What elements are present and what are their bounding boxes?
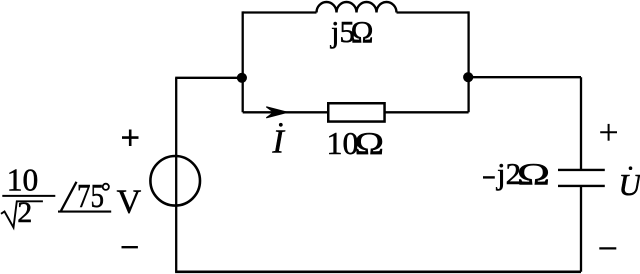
wire: left vertical branch through source	[175, 78, 177, 272]
node B (junction dot right)	[463, 72, 473, 82]
wire: top rail left segment	[243, 11, 317, 13]
voltage source Us (circle symbol)	[150, 156, 200, 206]
capacitor C1 (-j2 ohm) top plate	[558, 169, 605, 171]
wire: right vertical below capacitor	[580, 187, 582, 272]
svg-text:U: U	[619, 167, 640, 202]
resistor value label 10Ω	[327, 125, 385, 161]
source value label 10/√2 ∠75° V	[1, 163, 142, 229]
node A (junction dot left)	[237, 73, 247, 83]
inductor L1 (j5 ohm) coil	[317, 2, 397, 13]
radical sign of √2	[1, 201, 43, 227]
svg-text:I: I	[272, 124, 286, 161]
wire: resistor branch left segment with arrow shaft	[243, 111, 329, 113]
wire: resistor branch right segment	[385, 111, 469, 113]
polarity - at source bottom	[122, 246, 138, 248]
wire: left vertical of parallel loop	[242, 11, 244, 112]
current label İ (phasor I with dot)	[272, 123, 286, 161]
wire: middle rail from node B to capacitor branch	[469, 76, 581, 78]
angle symbol slash	[61, 182, 77, 211]
wire: right vertical above capacitor	[580, 77, 582, 169]
resistor R1 (10 ohm) body	[328, 103, 384, 121]
current arrow for İ on resistor branch	[266, 107, 287, 118]
polarity + at source top	[122, 130, 139, 147]
svg-text:75: 75	[77, 178, 104, 215]
wire: bottom rail	[175, 270, 581, 273]
wire: middle rail from source to node A	[175, 77, 243, 79]
fraction bar	[2, 195, 55, 197]
svg-text:V: V	[117, 184, 142, 221]
svg-text:Ω: Ω	[355, 125, 385, 161]
polarity + at capacitor top	[600, 124, 617, 141]
svg-text:Ω: Ω	[351, 15, 374, 49]
voltage label U̇ (phasor U with dot)	[619, 166, 640, 202]
degree mark	[103, 184, 109, 190]
capacitor value label -j2Ω	[483, 156, 550, 191]
svg-text:10: 10	[7, 163, 39, 198]
svg-text:Ω: Ω	[517, 156, 550, 191]
polarity - at capacitor bottom	[599, 247, 616, 249]
wire: top rail right segment	[397, 11, 469, 13]
inductor value label j5Ω	[330, 15, 373, 49]
svg-text:2: 2	[17, 196, 32, 229]
angle underline	[58, 211, 111, 213]
wire: right vertical of parallel loop	[467, 11, 469, 112]
capacitor C1 (-j2 ohm) bottom plate	[558, 185, 605, 187]
